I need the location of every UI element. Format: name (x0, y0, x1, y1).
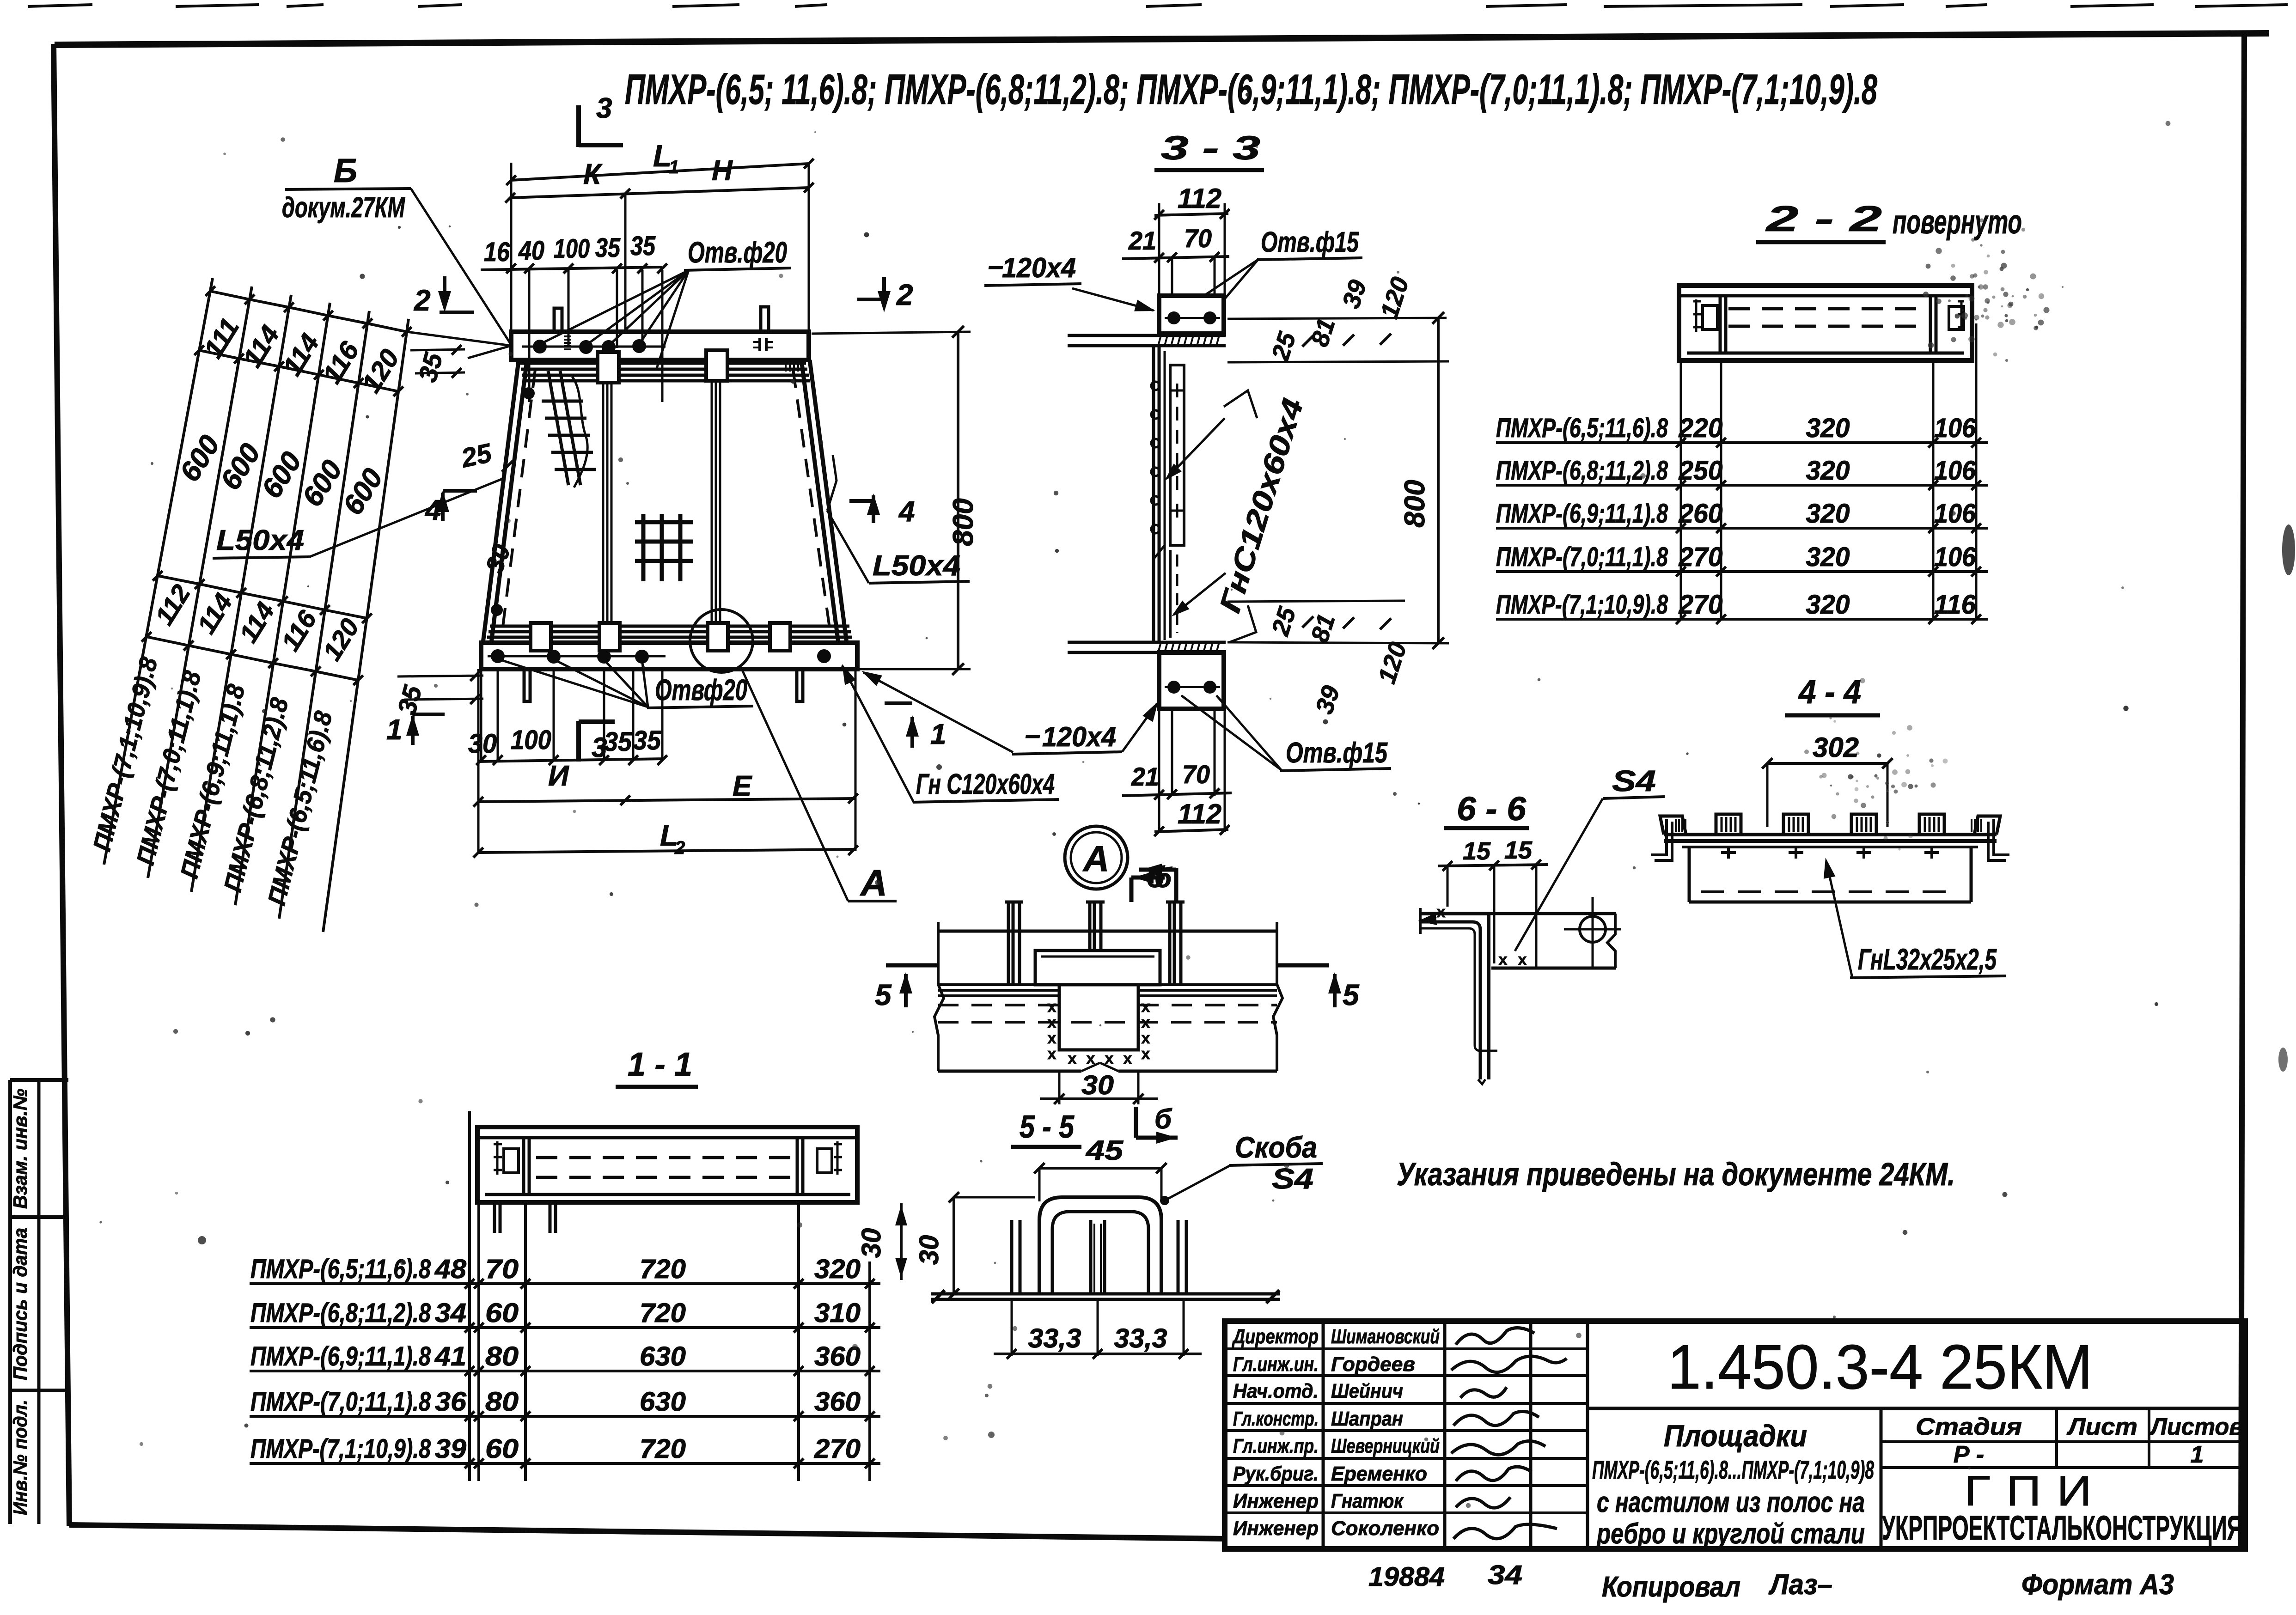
6-6 label S4 (1515, 764, 1665, 951)
svg-text:4: 4 (898, 496, 915, 528)
svg-text:ПМХР-(6,8;11,2).8: ПМХР-(6,8;11,2).8 (1496, 456, 1668, 486)
label Otv f20 top (540, 236, 791, 370)
svg-text:100: 100 (554, 234, 590, 264)
svg-text:х: х (1048, 1045, 1056, 1063)
svg-text:45: 45 (1086, 1135, 1124, 1166)
5-5 skoba staple (1039, 1197, 1161, 1293)
svg-text:60: 60 (485, 1298, 519, 1328)
svg-text:ГПИ: ГПИ (1964, 1468, 2107, 1515)
2-2 box (1679, 286, 1972, 360)
svg-text:320: 320 (1806, 499, 1850, 529)
svg-text:21: 21 (1128, 226, 1156, 255)
svg-text:1: 1 (669, 157, 679, 177)
svg-text:Указания приведены на докум: Указания приведены на документе 24КМ. (1397, 1156, 1955, 1192)
3-3 bottom end plate (1159, 652, 1224, 709)
svg-text:Нач.отд.: Нач.отд. (1233, 1380, 1319, 1402)
svg-text:48: 48 (434, 1254, 467, 1284)
svg-text:112: 112 (1178, 183, 1221, 214)
svg-text:30: 30 (914, 1235, 944, 1265)
title block stage cells (1881, 1408, 2245, 1468)
plan view: left sloped angle L50x4 (483, 361, 535, 643)
svg-text:35: 35 (633, 725, 661, 756)
dim 25 left (458, 438, 513, 473)
svg-text:Лаз–: Лаз– (1768, 1569, 1832, 1601)
label Skoba S4 (1160, 1131, 1323, 1205)
bottom annotations (1368, 1560, 2174, 1603)
fan PMXP labels (88, 654, 337, 908)
5-5 base line (931, 1290, 1280, 1303)
svg-text:70: 70 (1182, 760, 1210, 789)
node A section mark b top (1131, 862, 1172, 902)
svg-text:ПМХР-(7,0;11,1).8: ПМХР-(7,0;11,1).8 (250, 1387, 431, 1417)
svg-text:320: 320 (814, 1254, 861, 1284)
svg-text:ПМХР-(6,5;11,6).8: ПМХР-(6,5;11,6).8 (1496, 413, 1668, 443)
svg-text:А: А (1082, 838, 1109, 879)
label L50x4 left (213, 478, 504, 558)
svg-text:К: К (583, 158, 603, 190)
title block signatures (1451, 1328, 1567, 1539)
svg-text:1: 1 (930, 719, 946, 750)
svg-text:3: 3 (592, 732, 607, 763)
plan view: bottom edge band (481, 643, 857, 669)
svg-text:116: 116 (1934, 590, 1976, 620)
3-3 label Otv f15 bottom (1181, 695, 1391, 771)
svg-text:х: х (1142, 1030, 1150, 1047)
svg-text:5 - 5: 5 - 5 (1020, 1109, 1075, 1145)
svg-text:Отв.ф15: Отв.ф15 (1261, 226, 1359, 258)
dim chain 30 100 3 35 35 bottom (468, 669, 667, 765)
3-3 label Otv f15 top (1175, 226, 1362, 315)
svg-text:Копировал: Копировал (1602, 1571, 1740, 1603)
svg-text:Скоба: Скоба (1235, 1131, 1317, 1164)
label Otv f20 bottom (498, 659, 753, 708)
svg-text:А: А (860, 862, 887, 903)
title block frame (1225, 1321, 2245, 1549)
svg-text:40: 40 (518, 236, 544, 266)
svg-text:2: 2 (896, 278, 913, 311)
svg-text:х: х (1124, 1050, 1132, 1067)
svg-text:Инженер: Инженер (1233, 1490, 1319, 1512)
title block doc number (1588, 1332, 2245, 1408)
4-4 dim 302 (1762, 732, 1893, 827)
svg-text:х: х (1048, 998, 1056, 1016)
svg-text:Шейнич: Шейнич (1331, 1380, 1403, 1402)
svg-text:30: 30 (1081, 1070, 1114, 1100)
svg-text:310: 310 (814, 1298, 861, 1328)
svg-text:Листов: Листов (2149, 1414, 2243, 1440)
section mark 1 right (885, 703, 946, 750)
1-1 dim 30 right (856, 1203, 907, 1280)
section mark b top (for 6-6) (1139, 860, 1176, 903)
dim line I / E (473, 760, 858, 807)
3-3 lower web detail (1154, 411, 1177, 638)
plan view: bottom chord bars (486, 626, 854, 643)
svg-text:3 - 3: 3 - 3 (1161, 130, 1260, 167)
svg-text:21: 21 (1131, 762, 1159, 791)
node A label (0, 0, 0, 0)
svg-text:повернуто: повернуто (1893, 204, 2022, 241)
dim K / H (505, 155, 813, 332)
dim line L2 (473, 669, 858, 858)
svg-text:120х4: 120х4 (1042, 721, 1116, 752)
3-3 dim 21 70 top (1122, 224, 1229, 305)
3-3 right dims 25 81 39 120 top (1227, 274, 1449, 364)
svg-text:Шеверницкий: Шеверницкий (1331, 1435, 1440, 1457)
5-5 dims 33,3 33,3 (994, 1299, 1202, 1359)
svg-text:720: 720 (640, 1298, 686, 1328)
svg-text:х: х (1499, 951, 1508, 969)
3-3 label GnS120x60x4 rotated (1165, 390, 1310, 642)
plan view: detail circle on bottom joint (690, 609, 753, 672)
svg-text:360: 360 (814, 1387, 861, 1417)
svg-text:33,3: 33,3 (1114, 1323, 1167, 1353)
section mark 4 right (849, 494, 915, 528)
svg-text:Б: Б (334, 152, 357, 189)
section mark 2 right (857, 277, 913, 312)
svg-text:Инв.№ подл.: Инв.№ подл. (9, 1400, 31, 1515)
title block description (1592, 1408, 1881, 1550)
3-3 dim 112 bottom (1154, 709, 1229, 836)
svg-text:Подпись и дата: Подпись и дата (9, 1228, 31, 1380)
svg-text:Еременко: Еременко (1331, 1463, 1427, 1485)
title block GPI (1882, 1468, 2242, 1547)
left dimension fan lines (104, 278, 511, 932)
fan numbers lower row 112..120 (149, 579, 365, 665)
svg-text:106: 106 (1934, 542, 1976, 572)
svg-text:70: 70 (1184, 224, 1212, 253)
top scan noise (28, 5, 2288, 6)
section 2-2 label (1756, 198, 2022, 242)
svg-text:2 - 2: 2 - 2 (1765, 198, 1882, 239)
svg-text:2: 2 (414, 284, 431, 317)
svg-text:ГнL32х25х2,5: ГнL32х25х2,5 (1858, 943, 1997, 976)
5-5 dim 30 vertical (914, 1192, 1035, 1299)
svg-text:Стадия: Стадия (1916, 1414, 2022, 1440)
svg-text:39: 39 (435, 1434, 466, 1464)
svg-text:1.450.3-4 25КМ: 1.450.3-4 25КМ (1667, 1332, 2093, 1402)
svg-text:30: 30 (856, 1228, 886, 1258)
svg-text:ПМХР-(6,9;11,1).8: ПМХР-(6,9;11,1).8 (250, 1341, 431, 1371)
svg-text:720: 720 (640, 1254, 686, 1284)
1-1 box (477, 1127, 857, 1202)
svg-text:35: 35 (595, 233, 621, 263)
plan view: vertical flat posts (603, 381, 720, 626)
2-2 table rows (1496, 413, 1988, 624)
node A section mark 5 left (875, 965, 937, 1012)
label L50x4 right (827, 455, 970, 583)
node A section mark b bottom (1136, 1103, 1178, 1144)
svg-text:х: х (1437, 903, 1446, 921)
2-2 extension lines to table (1681, 323, 1976, 619)
label B dokum 27KM (282, 152, 511, 345)
svg-text:106: 106 (1934, 413, 1976, 443)
svg-text:Е: Е (733, 770, 752, 802)
svg-text:ребро и круглой стали: ребро и круглой стали (1596, 1518, 1865, 1550)
3-3 dim 112 top (1154, 183, 1229, 296)
svg-text:х: х (1048, 1030, 1056, 1047)
svg-text:Инженер: Инженер (1233, 1517, 1319, 1540)
svg-text:1: 1 (2191, 1441, 2204, 1468)
section mark 3 top (579, 92, 623, 147)
svg-text:х: х (1068, 1050, 1077, 1067)
svg-text:Н: Н (712, 155, 733, 187)
svg-text:х: х (1518, 951, 1527, 969)
node A deck band (934, 902, 1282, 1071)
5-5 dim 45 (1034, 1135, 1167, 1201)
svg-text:докум.27КМ: докум.27КМ (282, 192, 405, 224)
svg-text:320: 320 (1806, 590, 1850, 620)
6-6 right plate with bolt (1489, 897, 1621, 969)
svg-text:5: 5 (875, 978, 892, 1012)
svg-text:ПМХР-(7,0;11,1).8: ПМХР-(7,0;11,1).8 (1496, 542, 1668, 572)
svg-text:б: б (1154, 862, 1172, 893)
4-4 deck section (1651, 814, 2009, 902)
section 5-5 label (1011, 1109, 1081, 1147)
4-4 label GnL32x25x2.5 (1824, 858, 2006, 978)
svg-text:60: 60 (485, 1434, 519, 1464)
svg-text:720: 720 (640, 1434, 686, 1464)
3-3 top end plate (1159, 296, 1224, 334)
plan view: welded mesh symbol (635, 514, 693, 581)
svg-text:Гн С120х60х4: Гн С120х60х4 (916, 768, 1055, 800)
5-5 center and side bars (1012, 1220, 1186, 1293)
svg-text:Гнатюк: Гнатюк (1331, 1490, 1404, 1512)
plan view: ladder hatch detail (542, 371, 596, 488)
section mark 1 left (386, 714, 445, 746)
3-3 inner bar (1170, 365, 1184, 545)
svg-text:4 - 4: 4 - 4 (1798, 674, 1861, 711)
svg-text:х: х (1048, 1014, 1056, 1031)
svg-text:19884: 19884 (1368, 1562, 1445, 1592)
svg-text:Взам. инв.№: Взам. инв.№ (9, 1089, 31, 1209)
svg-text:270: 270 (814, 1434, 861, 1464)
svg-text:33,3: 33,3 (1028, 1323, 1081, 1353)
svg-text:106: 106 (1934, 456, 1976, 486)
svg-text:1: 1 (386, 714, 402, 746)
svg-text:35: 35 (630, 231, 656, 261)
svg-text:Рук.бриг.: Рук.бриг. (1233, 1463, 1319, 1485)
svg-text:320: 320 (1806, 413, 1850, 443)
6-6 dim 15 15 (1438, 836, 1548, 967)
section mark 2 left (414, 276, 474, 317)
svg-text:ПМХР-(6,9;11,1).8: ПМХР-(6,9;11,1).8 (1496, 499, 1668, 529)
svg-text:Шапран: Шапран (1331, 1408, 1403, 1430)
detail circle A (1065, 826, 1128, 889)
svg-text:Отв.ф20: Отв.ф20 (688, 236, 787, 269)
dim 35 pair left of top band (410, 345, 465, 385)
svg-text:Шимановский: Шимановский (1331, 1325, 1440, 1348)
svg-text:УКРПРОЕКТСТАЛЬКОНСТРУКЦИЯ: УКРПРОЕКТСТАЛЬКОНСТРУКЦИЯ (1882, 1509, 2242, 1547)
svg-text:–: – (988, 250, 1003, 281)
svg-text:34: 34 (435, 1298, 466, 1328)
svg-text:б: б (1154, 1103, 1172, 1134)
svg-text:Соколенко: Соколенко (1331, 1517, 1439, 1540)
3-3 channel web (1151, 346, 1165, 642)
svg-text:3: 3 (596, 92, 612, 124)
plan view: washer plates (531, 350, 790, 651)
svg-text:80: 80 (485, 1341, 519, 1371)
section 6-6 label (1444, 791, 1529, 828)
fan numbers 600 row (174, 430, 389, 520)
svg-text:Площадки: Площадки (1664, 1419, 1807, 1453)
svg-text:ПМХР-(6,8;11,2).8: ПМХР-(6,8;11,2).8 (250, 1298, 431, 1328)
svg-text:с настилом из полос на: с настилом из полос на (1597, 1487, 1865, 1518)
svg-text:34: 34 (1488, 1560, 1522, 1590)
svg-text:х: х (1142, 1014, 1150, 1031)
left margin stamp boxes (9, 1080, 68, 1524)
svg-text:630: 630 (640, 1341, 686, 1371)
svg-text:70: 70 (485, 1254, 519, 1284)
node A dim 30 (1040, 1070, 1158, 1104)
3-3 dim 800 (1399, 312, 1444, 649)
dim L1 (506, 139, 813, 185)
svg-text:ПМХР-(7,1;10,9).8: ПМХР-(7,1;10,9).8 (250, 1434, 431, 1464)
3-3 top flange with weld (1068, 335, 1226, 346)
svg-text:35: 35 (604, 727, 632, 757)
6-6 angle detail (1418, 903, 1497, 1084)
svg-text:30: 30 (468, 729, 497, 759)
3-3 dim 21 70 bottom (1122, 709, 1232, 800)
svg-text:16: 16 (484, 237, 510, 267)
section 3-3 label (1154, 130, 1264, 170)
svg-text:120х4: 120х4 (1002, 252, 1076, 283)
dim 35 bottom left (392, 671, 483, 718)
svg-text:6 - 6: 6 - 6 (1457, 791, 1527, 828)
fan numbers top row 111..120 (198, 313, 405, 398)
svg-text:15: 15 (1463, 837, 1491, 865)
svg-text:Р -: Р - (1954, 1441, 1984, 1468)
svg-text:Отв.ф15: Отв.ф15 (1286, 737, 1388, 769)
3-3 label -120x4 top (984, 250, 1155, 311)
label GnS120x60x4 plan (842, 664, 1059, 802)
3-3 right dims bottom (1227, 601, 1449, 717)
svg-text:ПМХР-(6,5;11,6).8...ПМХР-(7,1;: ПМХР-(6,5;11,6).8...ПМХР-(7,1;10,9)8 (1592, 1455, 1875, 1484)
1-1 pins below (495, 1204, 556, 1233)
plan view: bolt symbol in top band (753, 338, 773, 351)
svg-text:ПМХР-(7,1;10,9).8: ПМХР-(7,1;10,9).8 (1496, 590, 1668, 620)
section 1-1 label (616, 1046, 698, 1087)
svg-text:ПМХР-(6,5;11,6).8: ПМХР-(6,5;11,6).8 (250, 1254, 431, 1284)
svg-text:Лист: Лист (2066, 1414, 2137, 1440)
svg-text:302: 302 (1813, 732, 1859, 763)
title block signature table (1225, 1321, 1588, 1549)
svg-text:630: 630 (640, 1387, 686, 1417)
svg-text:Отвф20: Отвф20 (655, 673, 747, 707)
svg-text:Гл.констр.: Гл.констр. (1233, 1408, 1319, 1430)
svg-text:И: И (548, 760, 569, 792)
svg-text:15: 15 (1504, 836, 1533, 864)
section 4-4 label (1785, 674, 1880, 715)
svg-text:Директор: Директор (1232, 1325, 1319, 1348)
svg-text:–: – (1025, 719, 1040, 750)
svg-text:80: 80 (485, 1387, 519, 1417)
leader to detail A (742, 669, 897, 903)
plan view: right sloped angle L50x4 (786, 360, 847, 643)
3-3 label -120x4 bottom (861, 671, 1158, 754)
3-3 bottom flange with weld (1068, 642, 1226, 652)
plan view: top chord bars (519, 363, 810, 381)
svg-text:1 - 1: 1 - 1 (628, 1046, 692, 1083)
svg-text:х: х (1142, 1045, 1150, 1063)
svg-text:Формат А3: Формат А3 (2021, 1569, 2174, 1601)
svg-text:36: 36 (435, 1387, 467, 1417)
svg-text:320: 320 (1806, 456, 1850, 486)
svg-text:S4: S4 (1612, 764, 1656, 798)
svg-text:100: 100 (511, 725, 551, 755)
svg-text:41: 41 (434, 1341, 466, 1371)
svg-text:Гл.инж.ин.: Гл.инж.ин. (1233, 1353, 1319, 1376)
svg-text:х: х (1142, 998, 1150, 1016)
svg-text:Гл.инж.пр.: Гл.инж.пр. (1233, 1435, 1319, 1457)
section mark 3 bottom (579, 721, 615, 763)
node A section mark 5 right (1277, 965, 1360, 1012)
plan view: top edge band (511, 332, 809, 360)
svg-text:800: 800 (947, 498, 979, 546)
svg-text:ПМХР-(6,5; 11,6).8; ПМХР-(6,8;: ПМХР-(6,5; 11,6).8; ПМХР-(6,8;11,2).8; П… (625, 66, 1878, 113)
svg-text:S4: S4 (1272, 1163, 1313, 1195)
plan view: anchor pins (524, 307, 803, 701)
section mark 4 left (424, 491, 477, 526)
svg-text:L50x4: L50x4 (873, 550, 960, 582)
dim chain 16 40 100 35 35 (481, 231, 667, 402)
svg-text:2: 2 (674, 838, 685, 858)
dim 800 right (812, 326, 979, 675)
svg-text:320: 320 (1806, 542, 1850, 572)
svg-text:800: 800 (1399, 480, 1431, 527)
svg-text:5: 5 (1343, 978, 1360, 1012)
svg-text:Гордеев: Гордеев (1331, 1353, 1415, 1376)
1-1 table (250, 1111, 880, 1481)
svg-text:112: 112 (1178, 798, 1221, 829)
